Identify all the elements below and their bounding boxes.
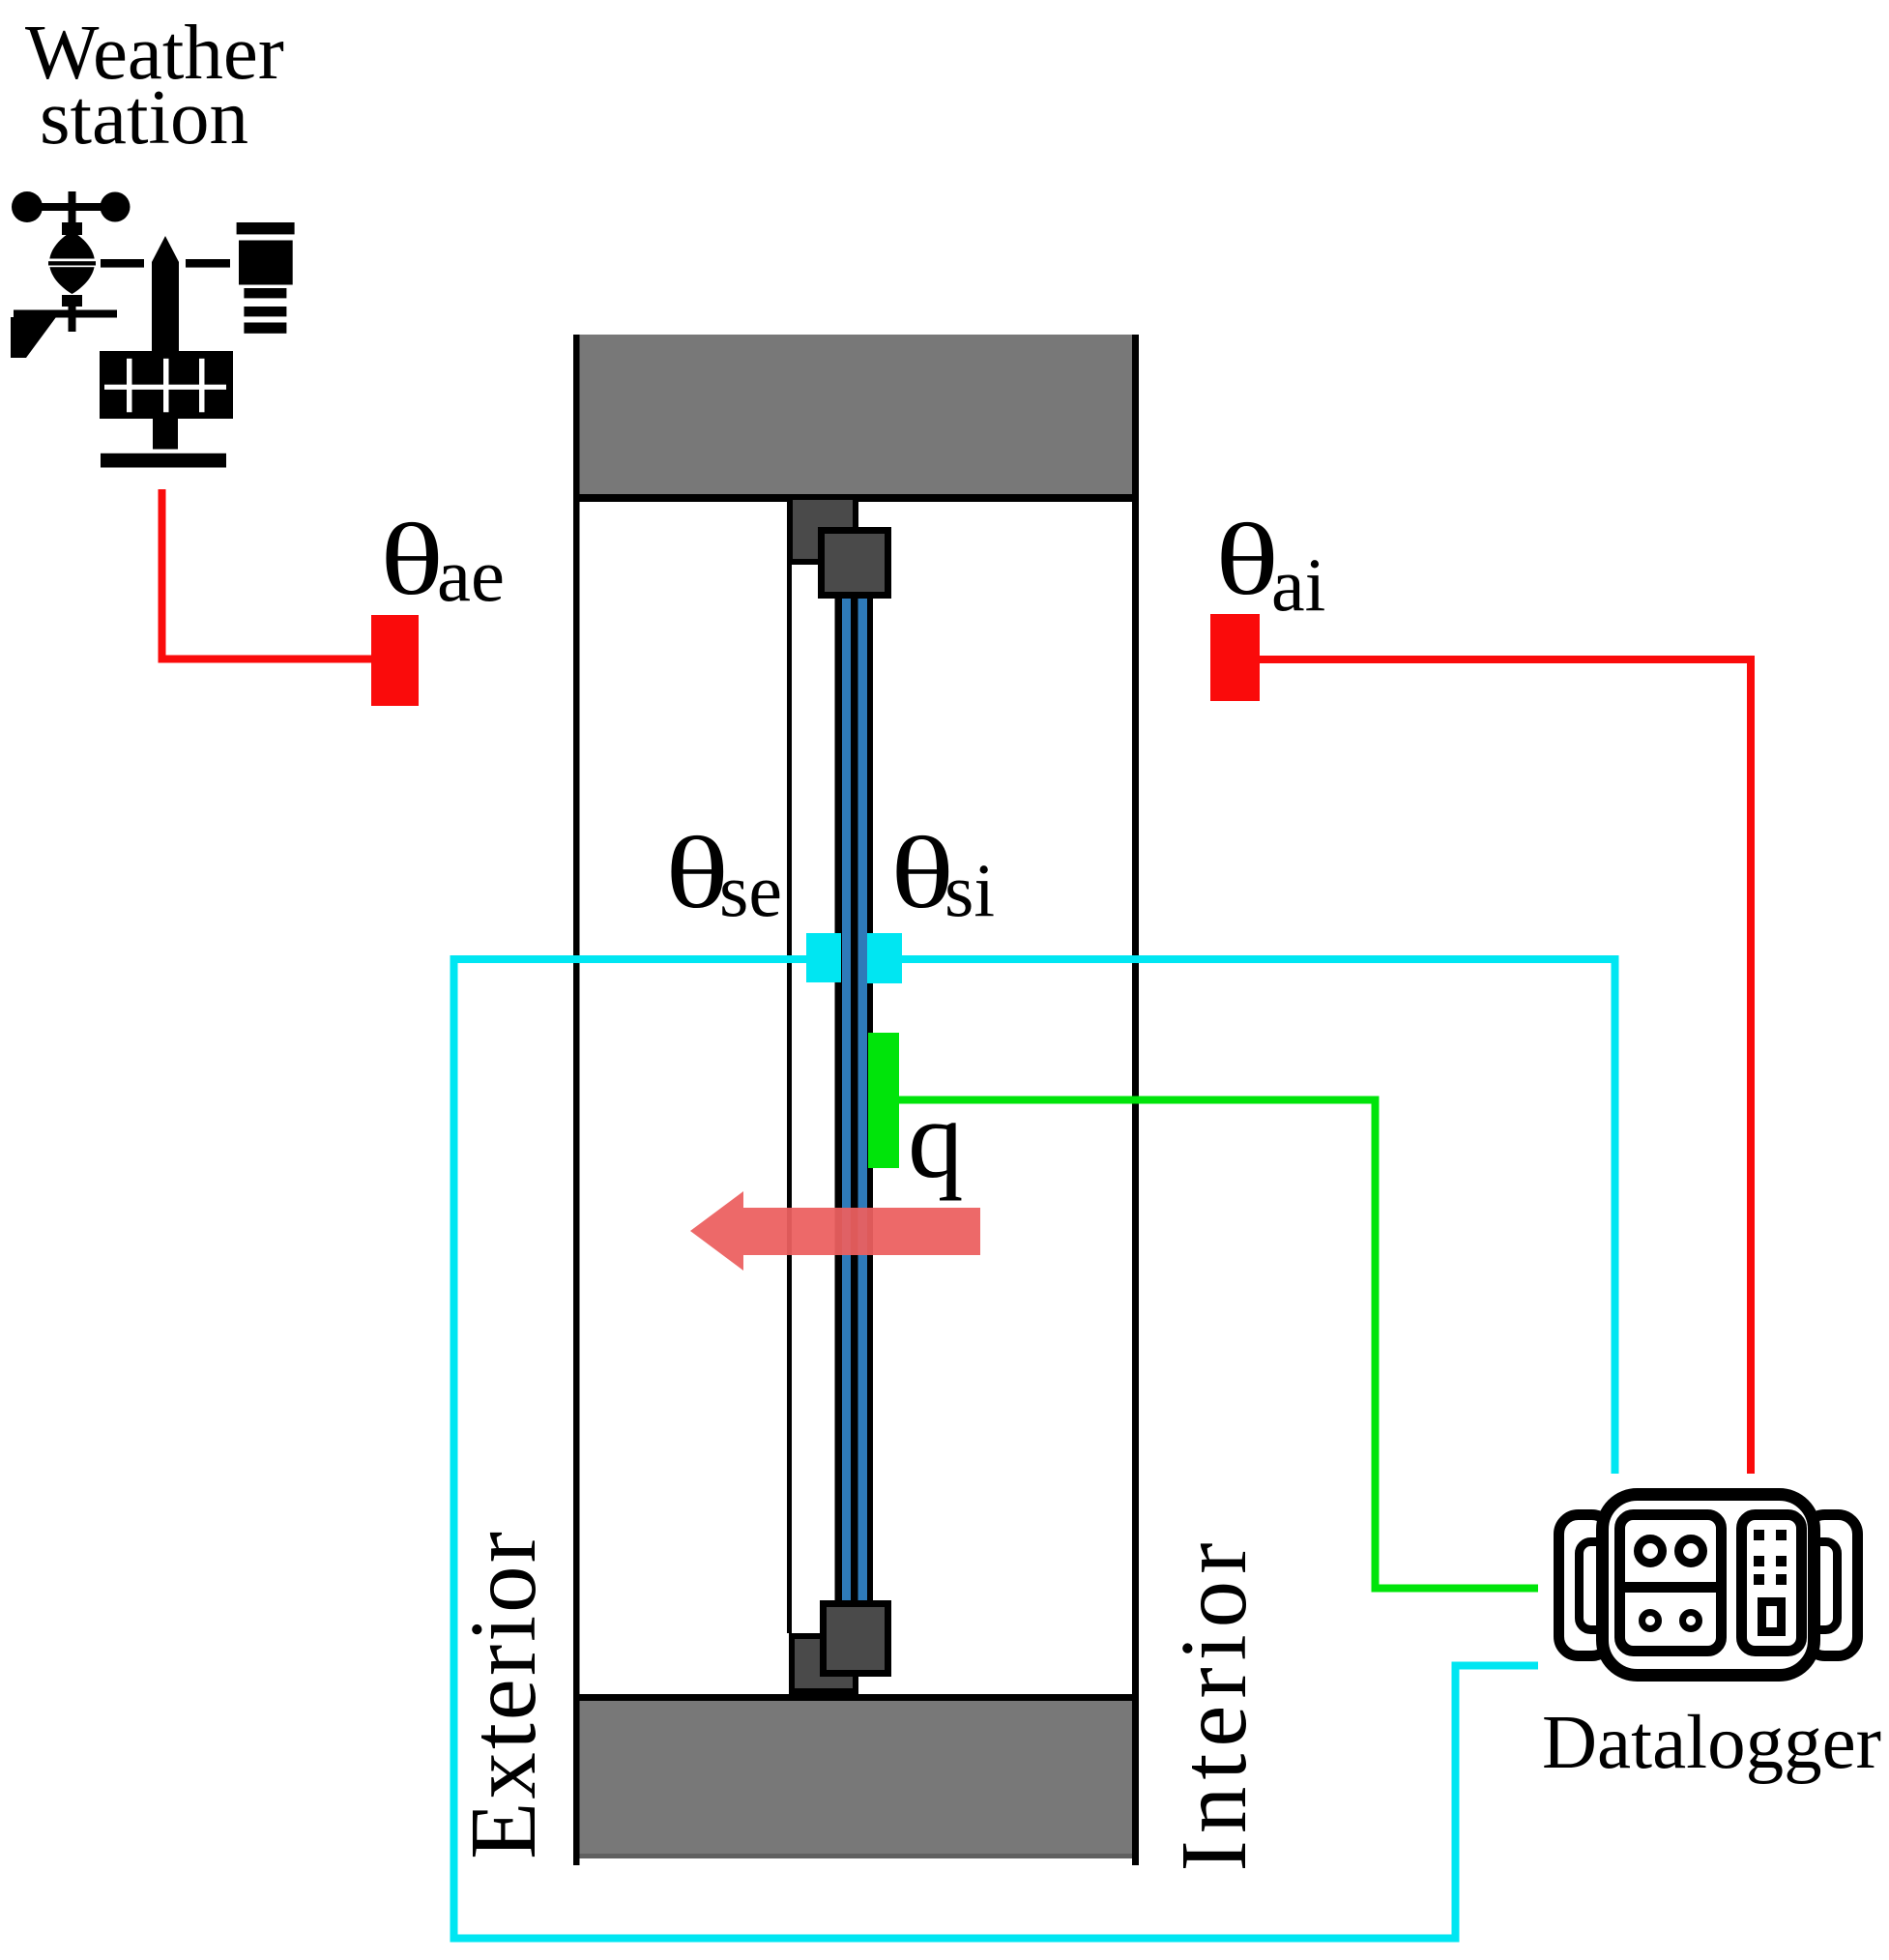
label θai [1215,503,1325,627]
svg-text:ai: ai [1271,542,1325,627]
sensor θae (red rect) [371,615,419,706]
window frame: top piece attached to glazing [818,527,891,599]
svg-text:Exterior: Exterior [451,1529,555,1859]
svg-text:θ: θ [1215,503,1279,616]
sensor q heat flux plate (green rect) [868,1033,899,1168]
window: thin pane line [787,565,792,1633]
svg-text:station: station [40,73,248,161]
weather station icon [11,191,295,468]
wire: weather station to sensor (red) [162,489,372,659]
window: glazing unit [835,592,874,1605]
structure: right wall line [1132,335,1139,1865]
label θse [665,816,782,932]
structure: left wall line [573,335,580,1865]
window frame: bottom piece attached to slab [789,1633,858,1694]
wire: θai sensor to datalogger (red) [1260,659,1751,1474]
label: Weather station [25,9,284,161]
heat flux arrow (pink) [690,1191,980,1271]
structure: bottom slab (gray) [577,1701,1135,1858]
svg-text:Interior: Interior [1162,1536,1265,1872]
datalogger icon [1559,1495,1858,1676]
svg-text:q: q [908,1078,964,1201]
sensor θai (red rect) [1210,614,1260,701]
svg-text:ae: ae [437,533,505,617]
svg-text:Datalogger: Datalogger [1542,1701,1881,1785]
svg-text:θ: θ [380,503,444,616]
window frame: bottom piece attached to glazing [820,1600,891,1677]
structure: top slab (gray) [577,335,1135,494]
structure: line above bottom slab [573,1694,1139,1701]
label θsi [890,816,995,932]
sensor θsi (cyan square) [867,933,902,983]
sensor θse (cyan square) [806,933,841,982]
wire: q sensor to datalogger (green) [899,1100,1538,1589]
structure: line under top slab [573,494,1139,502]
label θae [380,503,505,617]
structure: bottom slab lower edge [577,1854,1135,1858]
wire: θsi sensor to datalogger (cyan, right) [902,959,1615,1474]
svg-text:si: si [944,848,995,932]
wire: θse sensor to datalogger (cyan, left loop) [454,959,1539,1939]
svg-text:se: se [719,848,782,932]
window frame: top piece attached to slab [787,494,858,565]
